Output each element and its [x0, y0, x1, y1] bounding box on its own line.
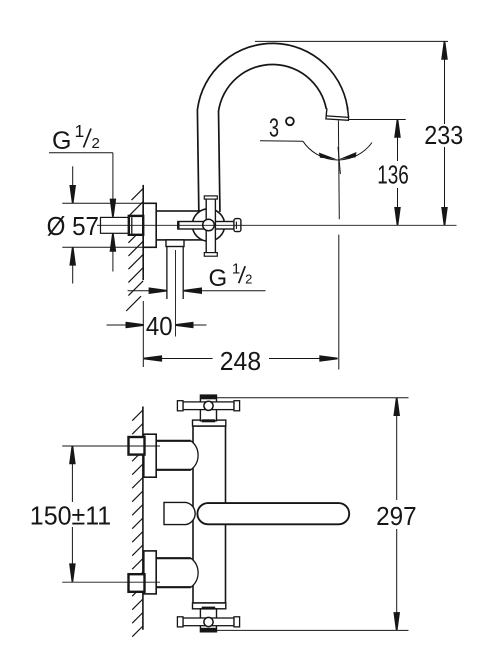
shower outlet bracket — [166, 240, 184, 247]
arrows (filled) — [69, 41, 447, 361]
union centerline top (plan) — [62, 445, 160, 447]
3 degree angle arc — [303, 141, 372, 160]
297 top ext line — [211, 397, 409, 399]
shower outlet protrusion (plan view) — [164, 502, 195, 524]
wall line (plan view) — [142, 407, 144, 630]
wall hatching (side view) — [126, 188, 143, 311]
G1/2 top leader line — [112, 153, 114, 204]
handle horizontal spoke — [178, 222, 235, 230]
ext line flange top / Ø57 — [62, 202, 143, 204]
297 bottom ext line — [211, 629, 409, 631]
40 dim right line — [188, 324, 207, 326]
Ø57 dim line top — [72, 166, 74, 190]
wall hatching (plan view) — [132, 410, 143, 637]
G1/2 bottom arrow — [110, 233, 117, 251]
297 dim line — [396, 398, 398, 500]
136 bottom arrow — [394, 207, 401, 225]
S-union hex nut (side view) — [129, 216, 143, 235]
spout capsule (plan view) — [197, 503, 349, 524]
S-union thread pipe G1/2 (side view) — [101, 217, 129, 233]
G1/2 label right arrow — [184, 287, 202, 294]
angle arc left arrow — [319, 153, 337, 160]
248 right arrow — [319, 355, 337, 362]
spout top ext line — [255, 40, 448, 42]
Ø57 dim line bottom — [72, 261, 74, 284]
svg-text:Ø 57: Ø 57 — [47, 211, 99, 241]
136 dim line — [397, 120, 399, 162]
3 degree tick line — [338, 147, 340, 174]
bottom stem circle — [204, 617, 213, 626]
spout end cut cleanup — [325, 109, 350, 118]
spout tube (side view) — [208, 54, 338, 212]
top stem black cap — [200, 395, 216, 399]
248 left arrow — [144, 355, 162, 362]
150 dim line — [71, 446, 73, 502]
handle knob inner line — [235, 222, 237, 229]
bottom union nut (plan view) — [129, 574, 145, 592]
handle inner hub circle — [203, 219, 215, 231]
valve body (plan view) — [193, 426, 226, 603]
outlet pipe centerline — [175, 250, 177, 337]
3 degree leader — [260, 140, 303, 143]
233 dim line — [444, 41, 446, 124]
40 dim left line — [107, 324, 132, 326]
top bonnet (plan view) — [193, 420, 226, 426]
handle left spoke end line — [177, 221, 179, 229]
valve body (side view) — [156, 211, 209, 240]
top handle stem block — [200, 395, 216, 421]
G1/2 top label underline — [49, 152, 113, 154]
297 bottom arrow — [393, 612, 400, 630]
297 top arrow — [393, 398, 400, 416]
wall extension line bottom — [142, 301, 144, 367]
top bar left cap — [177, 401, 183, 411]
shower outlet pipe G1/2 — [166, 247, 168, 300]
bottom bar right cap — [234, 617, 240, 627]
G1/2 label left arrow — [149, 287, 167, 294]
bottom bar left cap — [177, 617, 183, 627]
bottom G1/2 label underline — [200, 290, 266, 292]
40 left arrow — [126, 322, 144, 329]
svg-text:136: 136 — [377, 160, 409, 190]
bottom union neck — [156, 558, 198, 587]
G1/2 lower dim line — [112, 247, 114, 272]
text G 1/2 bottom label — [209, 261, 253, 293]
bottom handle bar — [183, 618, 234, 626]
233 bottom arrow — [441, 207, 448, 225]
top handle bar — [183, 402, 234, 410]
bottom G1/2 label leader left line — [128, 290, 152, 292]
black caps plan view — [200, 395, 216, 632]
handle bottom spoke cap — [204, 253, 217, 257]
Ø57 top arrow — [69, 185, 76, 203]
svg-text:297: 297 — [376, 501, 417, 531]
nut facet line — [131, 217, 133, 233]
bottom stem junction black bar — [202, 607, 216, 610]
svg-text:G: G — [209, 265, 228, 292]
main axis centerline (side view) — [97, 224, 457, 226]
handle top spoke cap — [204, 196, 217, 199]
svg-text:1: 1 — [75, 121, 85, 141]
top escutcheon flange (plan view) — [144, 434, 156, 477]
svg-text:40: 40 — [146, 311, 173, 341]
136 top arrow — [394, 120, 401, 138]
bottom stem black cap — [200, 628, 216, 632]
degree circle of 3° — [286, 117, 294, 125]
bottom escutcheon flange (plan view) — [144, 551, 156, 594]
angle arc right arrow — [339, 152, 357, 159]
handle hub circle (side view) — [192, 209, 224, 241]
top stem junction black bar — [202, 419, 216, 422]
248 dim line — [144, 358, 213, 360]
top union nut (plan view) — [129, 437, 145, 455]
svg-text:2: 2 — [92, 135, 100, 152]
svg-text:233: 233 — [424, 120, 463, 150]
outlet ext line — [349, 119, 406, 121]
union centerline bottom (plan) — [62, 581, 160, 583]
233 top arrow — [441, 41, 448, 59]
svg-text:1: 1 — [232, 261, 240, 278]
spout aerator end cap — [326, 116, 349, 120]
bottom handle stem block — [200, 609, 216, 632]
svg-text:2: 2 — [245, 271, 252, 286]
40 right arrow — [175, 322, 193, 329]
ext line flange bottom / Ø57 — [62, 246, 143, 248]
svg-text:3: 3 — [269, 112, 279, 142]
150 top arrow — [69, 446, 76, 464]
Ø57 bottom arrow — [69, 247, 76, 265]
top bar right cap — [234, 401, 240, 411]
svg-text:G: G — [52, 127, 71, 155]
wall line (side view) — [142, 185, 144, 280]
text G 1/2 top label — [52, 121, 100, 155]
top stem circle — [204, 401, 213, 410]
150 bottom arrow — [69, 563, 76, 581]
wall escutcheon flange (side view) — [143, 203, 156, 247]
G1/2 top arrow — [110, 199, 117, 217]
bottom bonnet (plan view) — [193, 603, 226, 609]
spout water axis line — [337, 121, 340, 220]
handle right knob — [234, 219, 241, 232]
svg-text:150±11: 150±11 — [30, 500, 111, 530]
top union neck — [156, 441, 198, 470]
svg-text:248: 248 — [220, 346, 261, 376]
handle vertical spoke — [206, 198, 215, 253]
